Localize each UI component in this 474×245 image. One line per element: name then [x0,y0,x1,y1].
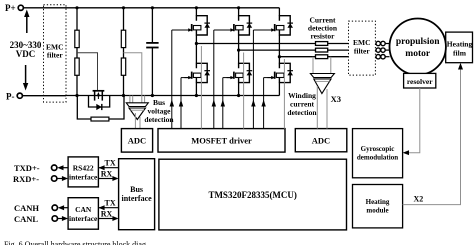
terminal CANL [52,216,57,221]
resistor R1b [75,58,79,75]
EMC filter 2 (dashed box) [349,21,376,75]
svg-text:TXD+-: TXD+- [14,163,40,173]
shunt resistor phase B [316,48,328,52]
bus voltage detection amplifier U1 [126,103,148,120]
svg-text:TX: TX [105,159,116,168]
svg-text:RS422: RS422 [73,164,94,173]
svg-text:Heating: Heating [366,198,390,206]
junction dots positive rail [75,6,240,9]
MOSFET driver box [158,129,285,153]
winding current detection amplifier U2 [310,74,334,94]
arrow up to P+ wire [24,10,29,34]
precharge MOSFET Q7 [93,91,105,101]
TMS320F28335 MCU box [159,159,347,230]
leg 3 source wire to midpoint [278,35,280,57]
svg-text:P-: P- [6,92,15,102]
wire RX Bus interface to RS422 [98,170,118,182]
svg-text:CAN: CAN [75,205,92,214]
svg-text:detection: detection [287,108,317,117]
MOSFET Q3 [267,15,293,35]
MOSFET Q1 [184,15,210,35]
gate drive arrow bottom leg2 [221,78,234,129]
terminal CANH [52,205,57,210]
leg 3 drain wire [278,8,280,16]
MOSFET Q5 [227,63,253,83]
phase wire A [196,43,348,45]
svg-text:P+: P+ [5,3,16,13]
svg-text:interface: interface [121,194,152,203]
leg 2 lower source to negative rail [238,83,240,96]
junction dots negative rail [75,94,240,97]
bus capacitor [146,8,158,96]
precharge diode D7 [96,104,102,110]
leg 2 source wire to midpoint [238,35,240,50]
svg-text:RX: RX [101,210,113,219]
label Winding current detection [287,91,317,117]
svg-text:detection: detection [144,115,174,124]
shunt resistor phase C [316,55,328,59]
ADC box 1 [121,129,152,153]
MOSFET Q4 [184,63,210,83]
propulsion motor [390,19,446,75]
divider 2 line [123,8,125,96]
svg-text:motor: motor [405,49,431,59]
resistor R2a [121,30,125,47]
svg-text:X2: X2 [414,195,424,204]
wire RXD arrow right [57,176,68,181]
svg-text:ADC: ADC [312,135,330,145]
CAN interface box [68,198,98,230]
connector pair phase B [375,48,389,52]
terminal TXD [52,165,57,170]
wire P- to EMC filter [23,95,66,97]
gate drive arrow bottom leg3 [261,78,274,129]
leg 1 lower source to negative rail [195,83,197,96]
junction dots phase midpoints [195,42,281,58]
MOSFET Q6 [267,63,293,83]
phase wire B [239,49,349,51]
svg-text:Heating: Heating [447,40,473,49]
precharge resistor loop wire [77,96,124,120]
svg-text:filter: filter [47,51,63,60]
svg-text:Bus: Bus [130,185,143,194]
label Heating film [447,40,473,58]
svg-text:Fig. 6 Overall hardware struc: Fig. 6 Overall hardware structure block … [4,240,146,245]
leg 2 midpoint to lower MOSFET [238,50,240,63]
svg-text:module: module [366,207,388,215]
svg-text:RX: RX [101,170,113,179]
gate drive arrow top leg2 [212,30,234,129]
svg-text:TMS320F28335(MCU): TMS320F28335(MCU) [208,190,297,200]
wire RX Bus interface to CAN [98,210,118,222]
wire TX RS422 to Bus interface [98,159,118,171]
terminal P- [17,93,22,98]
wire P+ to EMC filter [24,7,66,9]
leg 1 drain wire [195,8,197,16]
wire CANL arrow right [58,216,68,221]
wire CANH arrow left [58,205,68,210]
arrow down to P- wire [23,65,28,91]
svg-text:filter: filter [354,47,370,56]
DC bus positive rail [66,7,279,9]
svg-text:MOSFET driver: MOSFET driver [191,136,252,146]
ADC box 2 [295,129,347,152]
svg-text:resistor: resistor [310,32,335,41]
divider 1 line [76,8,78,96]
svg-text:CANH: CANH [14,203,39,213]
leg 1 source wire to midpoint [195,35,197,44]
DC bus negative rail [66,95,279,97]
gate drive arrow top leg3 [251,30,274,129]
phase wire C [279,56,348,58]
winding detection outputs to ADC [317,86,327,129]
RS422 interface box [68,157,98,187]
EMC filter 1 (dashed box) [44,5,67,102]
leg 1 midpoint to lower MOSFET [195,44,197,64]
shunt resistor phase A [316,42,328,46]
resistor R1a [75,30,79,47]
terminal P+ [18,5,23,10]
precharge resistor R7 [91,117,109,121]
wire TXD arrow left [57,165,68,170]
resolver box [404,73,436,88]
svg-text:film: film [453,49,467,58]
svg-text:CANL: CANL [14,214,38,224]
svg-text:RXD+-: RXD+- [13,174,39,184]
gate drive arrow bottom leg1 [179,78,191,129]
svg-text:Gyroscopic: Gyroscopic [361,145,395,153]
gate drive arrow top leg1 [170,30,191,129]
wire heating module to heating film X2 [403,63,463,205]
svg-text:X3: X3 [331,94,341,104]
gyroscopic demodulation box [353,129,403,178]
feedback line leg2 [243,53,245,129]
Bus interface box [119,159,155,230]
precharge MOSFET Q7 gate feed from divider 1 tap [77,53,98,90]
svg-text:interface: interface [69,214,98,223]
terminal RXD [52,176,57,181]
feedback line leg1 [200,46,202,129]
leg 3 midpoint to lower MOSFET [278,57,280,64]
svg-text:VDC: VDC [16,49,36,59]
leg 2 drain wire [238,8,240,16]
svg-text:demodulation: demodulation [357,154,398,162]
heating film box [446,32,473,63]
connector pair phase A [375,41,389,45]
bus voltage detection outputs to ADC [135,113,140,129]
svg-text:ADC: ADC [128,136,146,146]
wire resolver to gyroscopic demodulation [403,88,420,155]
svg-text:TX: TX [105,199,116,208]
label Current detection resistor [308,16,338,41]
precharge diode loop wire [89,96,110,108]
feedback line leg3 [283,59,285,129]
connector pair phase C [375,55,389,59]
label Bus voltage detection [144,98,174,124]
svg-text:resolver: resolver [407,77,433,86]
bus voltage sense lines [130,96,145,104]
label 230~330 VDC [10,40,42,59]
wire TX CAN to Bus interface [98,199,118,211]
bus voltage sense tap from divider 2 [124,53,142,103]
heating module box [353,185,403,228]
MOSFET Q2 [227,15,253,35]
leg 3 lower source to negative rail [278,83,280,96]
svg-text:propulsion: propulsion [396,37,440,47]
resistor R2b [121,58,125,75]
winding current sense taps [313,57,331,74]
svg-text:interface: interface [69,173,98,182]
